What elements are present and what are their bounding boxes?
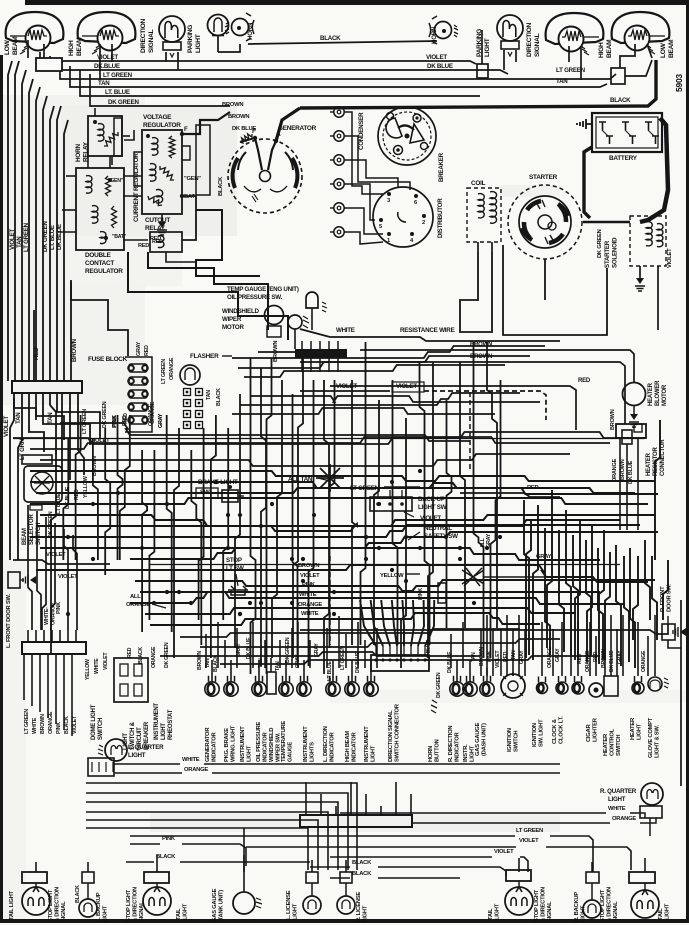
- svg-text:TAN: TAN: [471, 652, 477, 662]
- svg-text:CLOCK &CLOCK LT.: CLOCK &CLOCK LT.: [552, 716, 565, 744]
- glove compt light: [648, 677, 669, 758]
- wire orange r quarter: [412, 816, 656, 823]
- svg-text:BLACK: BLACK: [138, 647, 144, 664]
- svg-text:DK GREEN: DK GREEN: [108, 99, 139, 106]
- svg-text:ORANGE: ORANGE: [612, 816, 636, 822]
- svg-text:WIPER: WIPER: [222, 316, 242, 323]
- lower nested wires: [86, 783, 357, 870]
- svg-text:TAN: TAN: [15, 412, 22, 424]
- svg-text:VIOLET: VIOLET: [300, 573, 320, 579]
- svg-text:YELLOW: YELLOW: [380, 573, 404, 579]
- headlamp low beam right: [612, 12, 676, 58]
- svg-text:WHITE: WHITE: [608, 806, 626, 812]
- svg-text:SW: SW: [200, 489, 210, 496]
- headlamp high beam left: [68, 12, 135, 56]
- svg-text:DK BLUE: DK BLUE: [447, 651, 453, 673]
- svg-text:LIGHT: LIGHT: [128, 752, 146, 759]
- instrument connector row: [205, 658, 477, 696]
- left harness jumpers: [14, 393, 100, 452]
- wire violet rear 2: [330, 849, 528, 872]
- svg-text:CONTACT: CONTACT: [85, 260, 114, 267]
- svg-text:RED: RED: [578, 378, 591, 384]
- svg-text:BLACK: BLACK: [156, 854, 176, 860]
- r license light: [337, 872, 369, 922]
- svg-text:REGULATOR: REGULATOR: [143, 122, 181, 129]
- svg-text:DK BLUE: DK BLUE: [609, 650, 615, 672]
- svg-text:BROWN: BROWN: [298, 563, 319, 569]
- svg-text:DIRECTION SIGNALSWITCH CONNECT: DIRECTION SIGNALSWITCH CONNECTOR: [388, 703, 401, 762]
- dome light switch: [91, 658, 148, 740]
- svg-text:2: 2: [422, 220, 425, 226]
- parking light right: [476, 29, 491, 78]
- svg-text:TAN: TAN: [258, 658, 264, 668]
- resistance wire: [300, 327, 560, 341]
- voltage regulator: [142, 114, 201, 214]
- svg-text:BLACK: BLACK: [320, 35, 341, 42]
- svg-text:ORANGE: ORANGE: [184, 767, 208, 773]
- breaker label: [438, 152, 445, 182]
- svg-text:VIOLET: VIOLET: [519, 838, 539, 844]
- svg-text:ORANGE: ORANGE: [641, 650, 647, 672]
- svg-text:ORANGE: ORANGE: [547, 646, 553, 668]
- svg-text:ORANGE: ORANGE: [169, 357, 175, 380]
- clock: [552, 676, 584, 744]
- bottom lamp drop wires: [36, 855, 645, 872]
- svg-text:WINDSHIELD: WINDSHIELD: [222, 308, 259, 315]
- svg-text:LIGHT SW: LIGHT SW: [418, 504, 447, 511]
- double contact regulator: [76, 168, 127, 275]
- svg-text:VIOLET: VIOLET: [667, 248, 673, 268]
- svg-text:R. FRONTDOOR SW.: R. FRONTDOOR SW.: [660, 584, 673, 612]
- svg-text:VIOLET: VIOLET: [72, 715, 78, 734]
- wire violet lower left: [13, 438, 110, 580]
- svg-text:YELLOW: YELLOW: [85, 659, 91, 680]
- fuse area wire labels: [112, 341, 222, 428]
- wire violet middle: [300, 382, 546, 420]
- r front door wire: [300, 624, 668, 634]
- svg-text:LT BLUE: LT BLUE: [56, 493, 62, 514]
- wire black rear 2: [330, 871, 460, 878]
- svg-text:VIOLET: VIOLET: [336, 383, 357, 390]
- svg-text:GRAY: GRAY: [617, 650, 623, 664]
- regulator mounting channel: [114, 118, 210, 195]
- gas gauge tank unit: [212, 828, 262, 922]
- wire black horn crossover: [248, 35, 437, 44]
- l backup light: [75, 872, 109, 922]
- wire violet label mid right: [404, 512, 441, 522]
- heater blower motor: [610, 380, 668, 430]
- horn button symbol: [431, 700, 437, 713]
- svg-text:VOLTAGE: VOLTAGE: [143, 114, 172, 121]
- headlamp low beam left: [4, 12, 63, 55]
- svg-text:ORANGE: ORANGE: [612, 458, 618, 482]
- wire red mid right: [460, 485, 560, 497]
- wires into lower bus: [28, 630, 76, 642]
- temp sender: [273, 315, 309, 362]
- connector row riser wires: [206, 616, 463, 668]
- wire junction dots: [66, 469, 502, 616]
- svg-text:HORN: HORN: [247, 22, 254, 40]
- svg-text:ALL: ALL: [130, 594, 141, 600]
- all gray junction: [462, 533, 492, 586]
- engine harness connector bar: [258, 341, 347, 372]
- svg-text:BROWN: BROWN: [620, 459, 626, 480]
- svg-text:BATTERY: BATTERY: [609, 155, 638, 162]
- center wiring grid verticals left: [51, 415, 228, 658]
- heater resistor connector: [612, 424, 666, 530]
- brake light switch: [196, 479, 244, 502]
- svg-text:PINK: PINK: [112, 416, 118, 428]
- svg-text:INSTR.LIGHT: INSTR.LIGHT: [463, 744, 476, 762]
- svg-text:WHITE: WHITE: [94, 658, 100, 674]
- r front door switch: [660, 584, 686, 640]
- svg-text:FUSE BLOCK: FUSE BLOCK: [88, 356, 128, 363]
- heater control switch: [603, 676, 622, 756]
- svg-text:VIOLET: VIOLET: [396, 383, 417, 390]
- windshield wiper motor: [222, 306, 284, 338]
- svg-text:WHITE: WHITE: [336, 327, 355, 334]
- svg-text:FLASHER: FLASHER: [190, 353, 219, 360]
- svg-text:RED: RED: [122, 415, 128, 426]
- wire black battery feed: [300, 60, 656, 108]
- svg-text:F: F: [184, 126, 188, 133]
- tail light right inner: [488, 870, 553, 922]
- svg-text:RED: RED: [144, 345, 150, 356]
- svg-text:BLACK: BLACK: [218, 176, 224, 196]
- svg-text:GRAY: GRAY: [295, 654, 301, 668]
- wire dk green top: [90, 74, 230, 106]
- svg-text:NEUTRAL: NEUTRAL: [424, 525, 452, 532]
- svg-text:PINK: PINK: [487, 650, 493, 662]
- svg-text:SAFETY SW: SAFETY SW: [424, 533, 458, 540]
- svg-text:IGNITIONSWITCH: IGNITIONSWITCH: [507, 728, 520, 752]
- svg-text:LT GREEN: LT GREEN: [340, 646, 346, 670]
- svg-text:DK BLUE: DK BLUE: [65, 486, 71, 509]
- svg-text:RESISTANCE WIRE: RESISTANCE WIRE: [400, 327, 455, 334]
- svg-text:RED: RED: [127, 647, 133, 658]
- rear bus drop wires: [306, 782, 411, 815]
- svg-text:BLACK: BLACK: [352, 860, 372, 866]
- neutral safety switch label: [408, 525, 458, 540]
- stop light left: [126, 872, 189, 922]
- svg-text:GRAY: GRAY: [314, 643, 320, 657]
- svg-text:ORANGE: ORANGE: [298, 602, 322, 608]
- svg-text:DK GREEN: DK GREEN: [285, 637, 291, 663]
- svg-text:BAT: BAT: [184, 194, 195, 200]
- svg-text:LT BLUE: LT BLUE: [327, 660, 333, 681]
- horn right: [429, 16, 458, 44]
- wire violet rear: [246, 838, 631, 870]
- svg-text:TAN: TAN: [47, 412, 54, 424]
- right connector riser wires: [481, 615, 655, 676]
- direction signal connector fan: [360, 600, 434, 646]
- wire red left: [33, 310, 40, 381]
- svg-text:STARTER: STARTER: [529, 174, 558, 181]
- svg-text:WHITE: WHITE: [32, 717, 38, 734]
- svg-text:GRAY: GRAY: [158, 413, 164, 428]
- svg-text:STARTERSOLENOID: STARTERSOLENOID: [604, 237, 619, 268]
- headlamp connector left: [36, 58, 62, 71]
- svg-text:RED: RED: [138, 243, 149, 249]
- svg-text:TEMP GAUGE (ENG UNIT): TEMP GAUGE (ENG UNIT): [227, 286, 299, 293]
- svg-text:DK BLUE: DK BLUE: [246, 637, 252, 659]
- beam selector switch: [22, 455, 62, 545]
- r quarter drop wire: [649, 818, 651, 836]
- svg-text:GRAY: GRAY: [536, 554, 552, 560]
- svg-text:TAN: TAN: [556, 78, 568, 85]
- dashed service wires: [330, 392, 470, 645]
- center wiring grid verticals right: [352, 342, 501, 668]
- distributor: [373, 187, 444, 247]
- svg-text:BRAKE LIGHT: BRAKE LIGHT: [198, 479, 238, 486]
- l license light: [286, 872, 321, 920]
- light switch circuit breaker label: [123, 721, 150, 750]
- svg-text:RED: RED: [150, 236, 161, 242]
- svg-text:GENERATOR: GENERATOR: [278, 125, 317, 132]
- wire white r quarter: [340, 806, 645, 818]
- svg-text:VIOLET: VIOLET: [420, 515, 441, 522]
- svg-text:PINK: PINK: [56, 722, 62, 734]
- headlamp drop wires right: [504, 44, 652, 80]
- battery: [577, 113, 662, 162]
- wire brown left: [71, 280, 78, 381]
- svg-text:GRAY: GRAY: [519, 650, 525, 664]
- svg-text:REGULATOR: REGULATOR: [85, 268, 123, 275]
- svg-text:DK GREEN: DK GREEN: [42, 221, 49, 252]
- wire black rear left: [126, 854, 310, 862]
- main feed thick wires: [13, 439, 645, 565]
- svg-text:RED: RED: [74, 489, 80, 500]
- ignition wire column: [330, 107, 344, 237]
- ignition switch: [501, 672, 525, 752]
- svg-text:CUTOUT: CUTOUT: [145, 217, 170, 224]
- svg-text:DK GREEN: DK GREEN: [102, 401, 108, 428]
- back-up light switch: [370, 490, 447, 511]
- tail light left: [9, 872, 67, 922]
- svg-text:WHITE: WHITE: [299, 592, 317, 598]
- headlamp high beam right: [546, 13, 614, 58]
- coil: [467, 180, 501, 252]
- svg-text:BLACK: BLACK: [213, 655, 219, 672]
- l front door switch: [6, 572, 36, 648]
- svg-text:BROWN: BROWN: [479, 647, 485, 666]
- wire brown generator: [222, 102, 256, 132]
- svg-text:"GEN": "GEN": [184, 176, 201, 182]
- svg-text:VIOLET: VIOLET: [90, 438, 110, 444]
- cutout relay: [145, 217, 182, 252]
- all tan junction: [288, 464, 344, 492]
- wire tan top: [70, 66, 607, 87]
- svg-text:L. QUARTER: L. QUARTER: [128, 744, 164, 751]
- wire white lower: [114, 757, 560, 764]
- direction signal lamp right: [497, 15, 541, 57]
- svg-text:PINK: PINK: [162, 836, 176, 842]
- far right verticals: [524, 420, 668, 668]
- svg-text:TAN: TAN: [275, 661, 281, 671]
- direction signal switch connector: [371, 646, 429, 671]
- svg-text:TAIL LIGHT: TAIL LIGHT: [9, 890, 15, 920]
- svg-text:LT. BLUE: LT. BLUE: [49, 225, 56, 250]
- svg-text:GAS GAUGE(TANK UNIT): GAS GAUGE(TANK UNIT): [212, 888, 225, 922]
- svg-text:BLACK: BLACK: [352, 871, 372, 877]
- instrument light rheostat label: [154, 703, 174, 740]
- svg-text:TAN: TAN: [206, 390, 212, 400]
- headlamp drop wires left: [28, 36, 240, 80]
- connector row wire labels: [197, 637, 453, 698]
- svg-text:LT. BLUE: LT. BLUE: [105, 89, 130, 96]
- svg-text:PINK: PINK: [302, 582, 316, 588]
- svg-text:BROWN: BROWN: [601, 649, 607, 668]
- svg-text:WHITE: WHITE: [301, 611, 319, 617]
- svg-text:ALL TAN: ALL TAN: [288, 476, 313, 483]
- svg-text:VIOLET: VIOLET: [495, 650, 501, 668]
- dome switch wire labels: [85, 642, 170, 680]
- svg-text:LT GREEN: LT GREEN: [23, 222, 30, 252]
- right edge riser: [668, 600, 681, 786]
- svg-text:DK GREEN: DK GREEN: [48, 511, 54, 538]
- wire red heater: [330, 378, 591, 430]
- stop light switch: [226, 557, 248, 595]
- svg-text:VIOLET: VIOLET: [9, 229, 16, 250]
- svg-text:ORANGE: ORANGE: [585, 650, 591, 672]
- wire gray mid: [484, 554, 560, 577]
- sheet number 5903: [674, 74, 684, 92]
- svg-text:RED: RED: [503, 651, 509, 662]
- svg-text:BROWN: BROWN: [228, 114, 249, 120]
- wire stack labels center: [298, 563, 322, 617]
- svg-text:DK BLUE: DK BLUE: [232, 126, 256, 132]
- svg-text:BROWN: BROWN: [71, 338, 78, 362]
- svg-text:DOUBLE: DOUBLE: [85, 252, 111, 259]
- svg-text:LT GREEN: LT GREEN: [103, 72, 133, 79]
- svg-text:ORANGE: ORANGE: [48, 711, 54, 734]
- cigar lighter: [586, 683, 603, 742]
- svg-text:RED: RED: [593, 651, 599, 662]
- stop light right: [600, 872, 671, 922]
- wire dk blue top: [50, 56, 508, 74]
- wire lt blue top: [80, 70, 480, 96]
- svg-text:R. QUARTER: R. QUARTER: [600, 788, 637, 795]
- svg-text:MOTOR: MOTOR: [222, 324, 244, 331]
- svg-text:L. FRONT DOOR SW.: L. FRONT DOOR SW.: [6, 594, 12, 648]
- condenser: [358, 107, 436, 165]
- gas gauge dash unit: [475, 668, 494, 756]
- svg-text:HIGH BEAMINDICATOR: HIGH BEAMINDICATOR: [345, 731, 358, 762]
- staircase wires to fuse area: [71, 252, 288, 356]
- svg-text:LT GREEN: LT GREEN: [161, 359, 167, 384]
- svg-text:DK GREEN: DK GREEN: [164, 642, 170, 668]
- center wiring grid horizontals lower: [30, 471, 658, 625]
- wire brown heater 1: [360, 342, 634, 382]
- svg-text:RED: RED: [577, 653, 583, 664]
- svg-text:WHITE: WHITE: [182, 757, 200, 763]
- svg-text:GRAY: GRAY: [236, 643, 242, 657]
- svg-text:ORANGE: ORANGE: [126, 602, 150, 608]
- svg-text:OIL PRESSURE SW.: OIL PRESSURE SW.: [227, 294, 283, 301]
- rear harness bus bar: [300, 815, 412, 827]
- svg-text:YELLOW: YELLOW: [83, 475, 89, 498]
- horn relay: [75, 108, 122, 165]
- svg-text:BLACK: BLACK: [216, 388, 222, 406]
- svg-text:DK.BLUE: DK.BLUE: [94, 63, 120, 70]
- wire lt green top: [60, 60, 652, 84]
- connector row labels: [205, 703, 476, 762]
- svg-text:VIOLET: VIOLET: [3, 416, 10, 437]
- svg-text:LT GREEN: LT GREEN: [82, 409, 88, 434]
- left harness labels: [9, 221, 63, 252]
- svg-text:PINK: PINK: [56, 602, 62, 614]
- svg-text:DISTRIBUTOR: DISTRIBUTOR: [437, 198, 444, 238]
- svg-text:GRAY: GRAY: [555, 648, 561, 662]
- flasher: [180, 353, 232, 385]
- svg-text:BROWN: BROWN: [92, 456, 98, 476]
- svg-text:BLACK: BLACK: [75, 885, 81, 903]
- left verticals to lower bus: [28, 505, 77, 630]
- wires below lower bus with labels: [24, 654, 78, 736]
- svg-text:DK GREEN: DK GREEN: [597, 229, 603, 258]
- svg-text:TAN: TAN: [16, 236, 23, 248]
- svg-text:LT SW: LT SW: [226, 565, 244, 572]
- r backup light: [574, 872, 601, 922]
- svg-text:DK GREEN: DK GREEN: [436, 672, 442, 698]
- ignition primary loop: [460, 245, 607, 335]
- ignition wires to distributor: [344, 112, 410, 244]
- direction signal lamp left: [140, 16, 185, 57]
- svg-text:DK.BLUE: DK.BLUE: [56, 224, 63, 250]
- svg-text:"BAT": "BAT": [112, 234, 127, 240]
- svg-text:PINK: PINK: [418, 588, 424, 600]
- svg-text:PKG. BRAKEWRNG. LIGHT: PKG. BRAKEWRNG. LIGHT: [224, 725, 237, 762]
- svg-text:VIOLET: VIOLET: [426, 54, 447, 61]
- wire orange lower: [114, 767, 560, 773]
- left harness wires: [8, 61, 68, 381]
- svg-text:STOP: STOP: [226, 557, 242, 564]
- wires regulator to generator: [58, 112, 260, 276]
- svg-text:VIOLET: VIOLET: [103, 652, 109, 670]
- svg-text:LT GREEN: LT GREEN: [350, 485, 380, 492]
- parking light left: [187, 15, 229, 54]
- svg-text:BROWN: BROWN: [40, 714, 46, 734]
- svg-text:TAN: TAN: [511, 650, 517, 660]
- svg-text:VIOLET: VIOLET: [494, 849, 514, 855]
- beam selector wire labels: [48, 401, 164, 538]
- l quarter light: [88, 739, 164, 776]
- svg-text:ORANGE: ORANGE: [151, 646, 157, 668]
- heater light: [630, 676, 644, 740]
- battery cable thick: [584, 118, 668, 222]
- left bus connector bar: [12, 381, 82, 393]
- wire violet top: [40, 52, 476, 64]
- wire brown heater 2: [300, 354, 625, 424]
- svg-text:BLACK: BLACK: [64, 716, 70, 734]
- cluster interconnect wires: [93, 120, 196, 262]
- svg-text:LT GREEN: LT GREEN: [24, 709, 30, 734]
- all orange label: [126, 594, 166, 608]
- starter: [508, 174, 582, 259]
- wire pink rear left: [130, 836, 246, 866]
- wires below left bus: [3, 393, 84, 560]
- svg-text:TAN: TAN: [205, 658, 211, 668]
- svg-text:LIGHT: LIGHT: [608, 796, 626, 803]
- r quarter light: [600, 783, 663, 818]
- svg-text:RED: RED: [527, 485, 539, 491]
- svg-text:GAS GAUGE(DASH UNIT): GAS GAUGE(DASH UNIT): [475, 722, 488, 756]
- svg-text:TAN: TAN: [98, 80, 110, 87]
- svg-text:DK BLUE: DK BLUE: [427, 63, 453, 70]
- grid lower connecting rows: [160, 629, 600, 664]
- lower bus connector bar: [22, 642, 86, 654]
- svg-text:COIL: COIL: [471, 180, 486, 187]
